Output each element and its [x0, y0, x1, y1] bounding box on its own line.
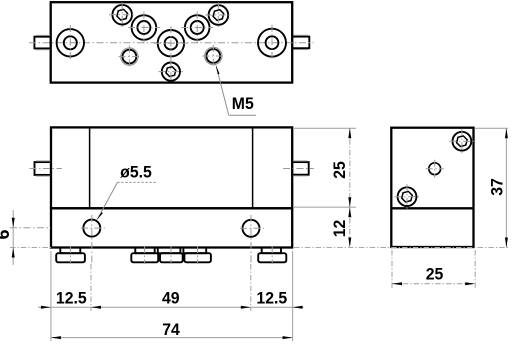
svg-text:12: 12	[331, 220, 350, 238]
side view hex screw lower left	[395, 184, 420, 209]
svg-text:6: 6	[0, 229, 13, 239]
dimension row 12.5 / 49 / 12.5	[38, 251, 304, 312]
svg-text:74: 74	[162, 321, 180, 340]
dimension 6 (left, hole center to bottom)	[0, 210, 51, 265]
mounting hole right (ø5.5)	[240, 215, 264, 311]
side view hex screw upper right	[449, 129, 474, 154]
port hole right	[258, 25, 286, 61]
svg-text:25: 25	[331, 161, 350, 179]
front view inner vertical line right	[252, 127, 254, 208]
valve hole A (upper left of V)	[128, 12, 160, 44]
mounting hole left (ø5.5)	[81, 215, 105, 311]
dimension 25 (side view width)	[392, 250, 475, 288]
svg-text:37: 37	[488, 178, 507, 196]
dimension 25 (front view height)	[294, 128, 356, 207]
side view body outline	[391, 128, 473, 247]
front view right port tab	[292, 162, 309, 175]
svg-text:ø5.5: ø5.5	[120, 163, 152, 182]
svg-text:M5: M5	[232, 95, 254, 114]
svg-text:49: 49	[162, 289, 180, 308]
svg-text:12.5: 12.5	[256, 289, 287, 308]
side view small hole center	[426, 160, 444, 178]
front view base plate	[51, 208, 292, 247]
dimension 37 (side view height)	[294, 128, 508, 247]
top view left port tab	[34, 37, 50, 49]
ø5.5 leader line	[96, 182, 156, 220]
side view plate division line	[391, 207, 473, 209]
foot 1 (left stud)	[56, 246, 85, 264]
dimension 74	[51, 312, 293, 342]
M5 leader line	[216, 64, 256, 115]
port hole left	[57, 25, 84, 61]
top view body outline	[51, 2, 293, 82]
foot 2	[131, 246, 158, 264]
hex socket screw top-left	[109, 3, 136, 29]
dimension 12 (plate height)	[331, 207, 352, 247]
threaded hole M5 left	[119, 46, 141, 68]
top view right port tab	[292, 37, 309, 49]
front view left port tab	[35, 162, 51, 175]
top view main horizontal centerline	[29, 42, 314, 44]
hex socket screw bottom center	[159, 59, 184, 82]
valve hole B (upper right of V)	[181, 12, 213, 44]
svg-text:12.5: 12.5	[56, 289, 87, 308]
valve hole C (center of V)	[154, 26, 188, 60]
front view upper body	[51, 127, 292, 208]
threaded hole M5 right (labelled)	[202, 45, 224, 67]
foot 5 (right stud)	[258, 246, 286, 264]
hex socket screw top-right	[205, 3, 232, 29]
svg-text:25: 25	[426, 265, 444, 284]
foot 4	[183, 246, 211, 264]
front view inner vertical line left	[89, 127, 91, 208]
foot 3 (center stud)	[158, 246, 183, 264]
